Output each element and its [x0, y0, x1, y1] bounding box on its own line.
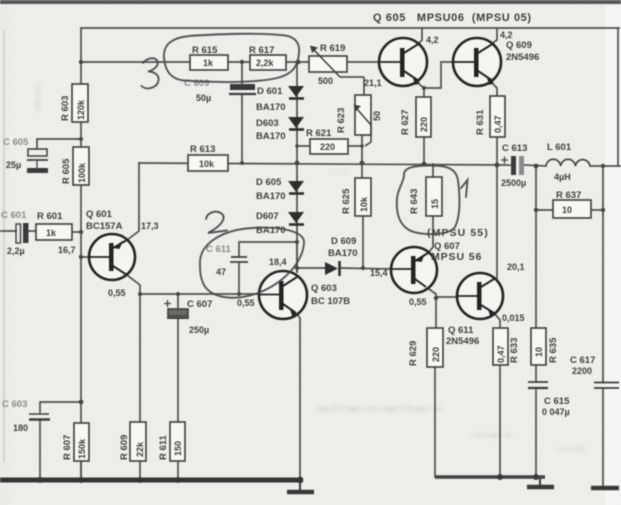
svg-text:20,1: 20,1: [507, 262, 525, 272]
svg-text:100k: 100k: [77, 162, 87, 183]
transistor Q609: [453, 38, 501, 86]
wire: C607 tap: [177, 294, 179, 309]
svg-text:220: 220: [320, 142, 335, 152]
resistor R605: [73, 147, 89, 185]
wire: R643 bottom to Q607 emitter: [428, 216, 433, 253]
svg-text:16,7: 16,7: [58, 245, 76, 255]
svg-text:D 605: D 605: [256, 177, 282, 188]
wire: Q603 emitter down to bus: [296, 313, 300, 480]
C605 labels: [3, 137, 29, 170]
D609 labels: [328, 236, 358, 259]
svg-text:0 047µ: 0 047µ: [542, 407, 570, 417]
svg-text:C 613: C 613: [502, 143, 527, 154]
svg-text:15: 15: [430, 199, 440, 209]
R619 labels: [318, 43, 345, 86]
transistor Q611: [457, 273, 503, 319]
capacitor C615: [528, 382, 548, 388]
svg-text:2N5496: 2N5496: [506, 52, 539, 63]
svg-text:R 635: R 635: [548, 337, 559, 363]
wire: R621 left lead: [297, 145, 310, 147]
wire: R625 bottom lead: [362, 216, 364, 268]
annotation digit 3: [142, 58, 159, 88]
svg-text:4,2: 4,2: [500, 30, 513, 40]
wire: R609 drop: [139, 294, 141, 422]
svg-text:—~·—·–·—·~—·–: —~·—·–·—·~—·–: [318, 403, 444, 415]
R633 labels: [496, 338, 520, 363]
svg-text:R 629: R 629: [408, 341, 419, 366]
svg-text:R 625: R 625: [341, 188, 352, 214]
svg-text:C 605: C 605: [3, 137, 29, 148]
svg-text:C 601: C 601: [1, 210, 27, 221]
wire: R631 bottom through output line down to Q611 collector: [496, 137, 498, 278]
wire: R633 to right bus: [499, 365, 501, 477]
svg-text:R 615: R 615: [192, 45, 218, 56]
wire: Q607 emitter node to Q611 base: [436, 296, 458, 298]
wire: speaker line drop x=603: [602, 166, 604, 382]
wire: C605 tap wire: [37, 139, 81, 149]
svg-text:D 609: D 609: [331, 236, 356, 247]
svg-text:10k: 10k: [359, 196, 369, 212]
L601 labels: [547, 142, 572, 182]
resistor R607: [74, 423, 89, 461]
svg-text:·–·—: ·–·—: [556, 444, 586, 455]
Q603 labels: [311, 283, 350, 307]
capacitor C605: [27, 149, 48, 173]
wire: C603 tap wire: [40, 402, 81, 412]
resistor R609: [130, 422, 146, 461]
svg-text:D603: D603: [256, 118, 279, 129]
diode D601: [288, 86, 304, 99]
capacitor C609: [229, 84, 256, 94]
svg-text:500: 500: [318, 76, 333, 86]
svg-text:R 609: R 609: [119, 435, 130, 460]
svg-text:15,4: 15,4: [370, 268, 388, 278]
diode D607: [288, 212, 304, 225]
svg-text:R 611: R 611: [158, 434, 169, 460]
wire: Q601 collector down to 0,55 node: [127, 275, 140, 294]
svg-text:R 637: R 637: [556, 190, 581, 201]
svg-text:Q 609: Q 609: [506, 40, 532, 51]
trimmer R623: [354, 95, 372, 146]
svg-text:50µ: 50µ: [196, 93, 211, 103]
wire: Q601 emitter up to main node line: [127, 163, 139, 240]
C603 labels: [2, 399, 28, 433]
wire: R621 right lead to R623 column: [348, 145, 362, 147]
svg-text:MPSU 56: MPSU 56: [431, 251, 482, 263]
svg-text:R 601: R 601: [37, 211, 63, 222]
svg-text:BA170: BA170: [256, 225, 286, 236]
wire: C603 lower lead: [39, 421, 41, 480]
D607 labels: [256, 211, 286, 236]
svg-text:C 615: C 615: [544, 396, 570, 407]
resistor R613: [188, 155, 228, 171]
annotation circle 2 around C611: [200, 228, 304, 298]
annotation circle 3 around R615 R617: [164, 34, 299, 82]
capacitor C617: [594, 383, 619, 389]
R601 labels: [37, 211, 63, 238]
resistor R637: [553, 200, 591, 218]
svg-text:D 601: D 601: [257, 86, 283, 97]
Q611 labels: [446, 325, 479, 347]
svg-text:50: 50: [372, 111, 382, 121]
svg-text:10: 10: [562, 205, 572, 215]
trimmer R619: [309, 46, 364, 96]
wire: output line after L601 to edge: [590, 165, 621, 167]
capacitor C603: [29, 414, 50, 420]
svg-text:·–·—·~: ·–·—·~: [470, 430, 513, 441]
wire: R601 to left column: [72, 231, 81, 233]
svg-text:18,4: 18,4: [269, 257, 287, 267]
svg-text:10: 10: [534, 347, 544, 357]
diode D609: [325, 261, 340, 276]
svg-text:R 627: R 627: [400, 110, 411, 135]
svg-text:C 611: C 611: [206, 244, 232, 255]
C611 labels: [206, 244, 232, 277]
wire: R609 to bus: [139, 461, 141, 480]
transistor Q607: [391, 247, 437, 293]
C613 labels: [501, 143, 527, 188]
wire: R623 bottom lead: [361, 135, 363, 163]
wire: Q609 collector to rail: [494, 28, 497, 42]
svg-text:0,55: 0,55: [237, 298, 255, 308]
R635 labels: [534, 337, 559, 363]
svg-text:R 619: R 619: [320, 43, 345, 54]
svg-text:R 621: R 621: [306, 128, 332, 139]
Q607 labels: [427, 227, 489, 263]
resistor R621: [310, 139, 348, 154]
wire: C601 to R601: [28, 230, 36, 232]
wire: Q601 base wire: [81, 256, 90, 258]
svg-text:180: 180: [13, 423, 28, 433]
svg-text:4µH: 4µH: [554, 172, 571, 182]
capacitor C613: [501, 156, 524, 175]
svg-text:BA170: BA170: [328, 248, 358, 259]
wire: R629 drop: [435, 298, 437, 328]
wire: output node drop x=536: [535, 166, 537, 328]
svg-text:–·–: –·–: [330, 167, 349, 177]
svg-text:R 605: R 605: [61, 158, 72, 184]
resistor R625: [355, 178, 371, 216]
wire: bias wire y=62 from left column to Q605 base: [81, 61, 379, 63]
R607 labels: [62, 435, 87, 460]
wire: input wire to C601: [0, 230, 16, 232]
svg-text:R 613: R 613: [190, 144, 215, 155]
R605 labels: [61, 158, 87, 184]
Q609 labels: [506, 40, 539, 63]
svg-text:BA170: BA170: [256, 102, 286, 113]
resistor R617: [250, 55, 286, 70]
annotation circle 1 around R643: [397, 166, 460, 235]
svg-text:R 617: R 617: [249, 45, 274, 56]
resistor R603: [72, 84, 88, 122]
R625 labels: [341, 188, 369, 214]
ground symbol mid-right: [527, 478, 554, 487]
R643 labels: [409, 189, 440, 214]
svg-text:R 607: R 607: [62, 435, 73, 460]
capacitor C607: [164, 300, 189, 318]
wire: C611 top wire to diode chain: [239, 242, 297, 256]
ground bus left: [0, 478, 302, 483]
R621 labels: [306, 128, 335, 152]
svg-text:1k: 1k: [46, 228, 57, 238]
transistor Q605: [379, 38, 427, 86]
svg-text:0,47: 0,47: [493, 115, 503, 133]
R623 labels: [336, 108, 382, 133]
svg-text:BC157A: BC157A: [86, 221, 123, 232]
svg-text:BA170: BA170: [256, 191, 286, 202]
svg-text:(MPSU 55): (MPSU 55): [427, 227, 489, 239]
svg-text:0,015: 0,015: [502, 313, 525, 323]
svg-text:R 631: R 631: [475, 109, 486, 135]
wire: 0,55 node horizontal to Q603 base: [140, 293, 259, 295]
svg-text:Q 605 MPSU06 (MPSU 05): Q 605 MPSU06 (MPSU 05): [373, 12, 532, 24]
svg-text:17,3: 17,3: [141, 221, 159, 231]
resistor R643: [426, 177, 442, 216]
resistor R629: [427, 328, 443, 367]
C601 labels: [1, 210, 27, 256]
wire: R635 bottom to C615: [535, 365, 537, 381]
C607 labels: [187, 299, 212, 335]
wire: C611 bottom lead: [238, 263, 240, 294]
svg-text:2,2k: 2,2k: [256, 58, 275, 68]
Q601 labels: [86, 209, 123, 232]
D601 labels: [256, 86, 286, 113]
wire: Q611 emitter to R633: [494, 313, 500, 328]
R615 labels: [192, 45, 218, 68]
D605 labels: [256, 177, 286, 202]
resistor R635: [531, 328, 546, 365]
wire: R643 top lead: [432, 164, 434, 177]
R611 labels: [158, 434, 183, 460]
svg-text:22k: 22k: [135, 441, 145, 457]
resistor R615: [190, 55, 228, 70]
wire: output line after C613: [524, 165, 546, 166]
wire: Q607 collector down: [426, 287, 436, 298]
wire: +V supply rail top: [81, 27, 619, 29]
svg-text:47: 47: [216, 267, 226, 277]
svg-text:21,1: 21,1: [364, 78, 382, 88]
wire: R637 right lead: [591, 209, 603, 211]
annotation digit 1: [461, 180, 468, 197]
svg-text:120k: 120k: [76, 99, 86, 120]
wire: Q609 emitter to R631: [493, 84, 497, 96]
R603 labels: [60, 96, 86, 121]
diode D605: [288, 181, 304, 194]
svg-text:25µ: 25µ: [6, 160, 21, 170]
wire: R627 bottom to main line: [423, 137, 425, 164]
transistor Q601: [89, 234, 135, 280]
svg-text:2,2µ: 2,2µ: [7, 246, 25, 256]
svg-text:2500µ: 2500µ: [501, 178, 526, 188]
svg-text:D607: D607: [256, 211, 279, 222]
ground symbol far right under C617: [591, 486, 619, 491]
R629 labels: [408, 341, 441, 366]
inductor L601: [546, 159, 590, 166]
R631 labels: [475, 109, 503, 135]
svg-text:250µ: 250µ: [189, 325, 209, 335]
capacitor C601: [16, 223, 29, 243]
svg-text:R 603: R 603: [60, 96, 71, 121]
capacitor C611: [230, 257, 248, 262]
wire: R611 to bus: [177, 461, 179, 480]
svg-text:C 607: C 607: [187, 299, 212, 310]
faint scan bleed-through smudges (decorative): [32, 83, 586, 455]
svg-text:0,55: 0,55: [409, 297, 427, 307]
svg-text:Q 611: Q 611: [448, 325, 474, 336]
ground bus right: [435, 475, 545, 479]
resistor R633: [493, 328, 508, 365]
resistor R631: [490, 96, 505, 137]
wire: C607 to R611: [177, 319, 179, 422]
wire: diode chain vertical: [296, 62, 298, 272]
resistor R627: [416, 97, 431, 137]
svg-text:R 633: R 633: [509, 338, 520, 363]
resistor R601: [36, 224, 72, 240]
wire: right edge vertical from rail down to output line: [617, 28, 619, 166]
svg-text:BA170: BA170: [256, 131, 286, 142]
wire: Q603 collector up: [296, 242, 298, 272]
svg-text:4,2: 4,2: [426, 35, 439, 45]
wire: C609 drop from bias wire to main line: [241, 62, 243, 84]
svg-text:C 617: C 617: [570, 355, 595, 366]
D603 labels: [256, 118, 286, 142]
wire: Q605 emitter down to R627: [419, 84, 424, 97]
wire: C617 bottom to ground: [602, 389, 604, 487]
svg-text:1k: 1k: [203, 58, 214, 68]
svg-text:L 601: L 601: [547, 142, 572, 153]
C609 labels: [184, 78, 211, 103]
svg-text:0,47: 0,47: [496, 345, 506, 363]
svg-text:Q 603: Q 603: [311, 283, 337, 294]
svg-text:R 643: R 643: [409, 189, 420, 214]
node: junction dots: [79, 60, 606, 405]
wire: Q605 collector to rail: [420, 28, 422, 42]
svg-text:·–·–·: ·–·–·: [32, 83, 43, 114]
svg-text:C 609: C 609: [184, 78, 209, 89]
wire: R637 left lead: [536, 209, 553, 211]
wire: R629 to right bus: [434, 367, 436, 477]
svg-text:BC 107B: BC 107B: [311, 296, 350, 307]
svg-text:150: 150: [173, 441, 183, 456]
R627 labels: [400, 110, 429, 135]
R609 labels: [119, 435, 145, 460]
wire: D609 cathode to Q607 base: [341, 268, 392, 269]
wire: main node line y=163: [139, 163, 511, 165]
R617 labels: [249, 45, 275, 68]
R613 labels: [190, 144, 215, 169]
svg-text:150k: 150k: [77, 438, 87, 459]
C617 labels: [570, 355, 595, 376]
resistor R611: [170, 422, 185, 461]
svg-text:R 623: R 623: [336, 108, 347, 133]
svg-text:0,55: 0,55: [108, 288, 126, 298]
annotation digit 2: [206, 212, 227, 233]
wire: D609 anode from Q603 collector node: [297, 267, 325, 269]
svg-text:220: 220: [419, 117, 429, 132]
wire: Q605 emitter to Q609 base staircase: [424, 62, 454, 88]
ground symbol left: [287, 482, 314, 492]
transistor Q603: [259, 271, 307, 319]
wire: C615 bottom to right bus: [535, 390, 537, 477]
diode D603: [288, 117, 304, 130]
R637 labels: [556, 190, 581, 215]
svg-text:2200: 2200: [572, 366, 592, 376]
svg-text:C 603: C 603: [2, 399, 27, 410]
C615 labels: [542, 396, 570, 417]
svg-text:Q 601: Q 601: [86, 209, 113, 220]
svg-text:2N5496: 2N5496: [446, 336, 479, 347]
wire: left column vertical x=81 from rail to bottom bus: [80, 28, 82, 480]
wire: R625 top lead: [361, 163, 363, 178]
svg-text:220: 220: [431, 347, 441, 362]
svg-text:10k: 10k: [199, 159, 215, 169]
wire: R607 to bus: [80, 461, 82, 480]
